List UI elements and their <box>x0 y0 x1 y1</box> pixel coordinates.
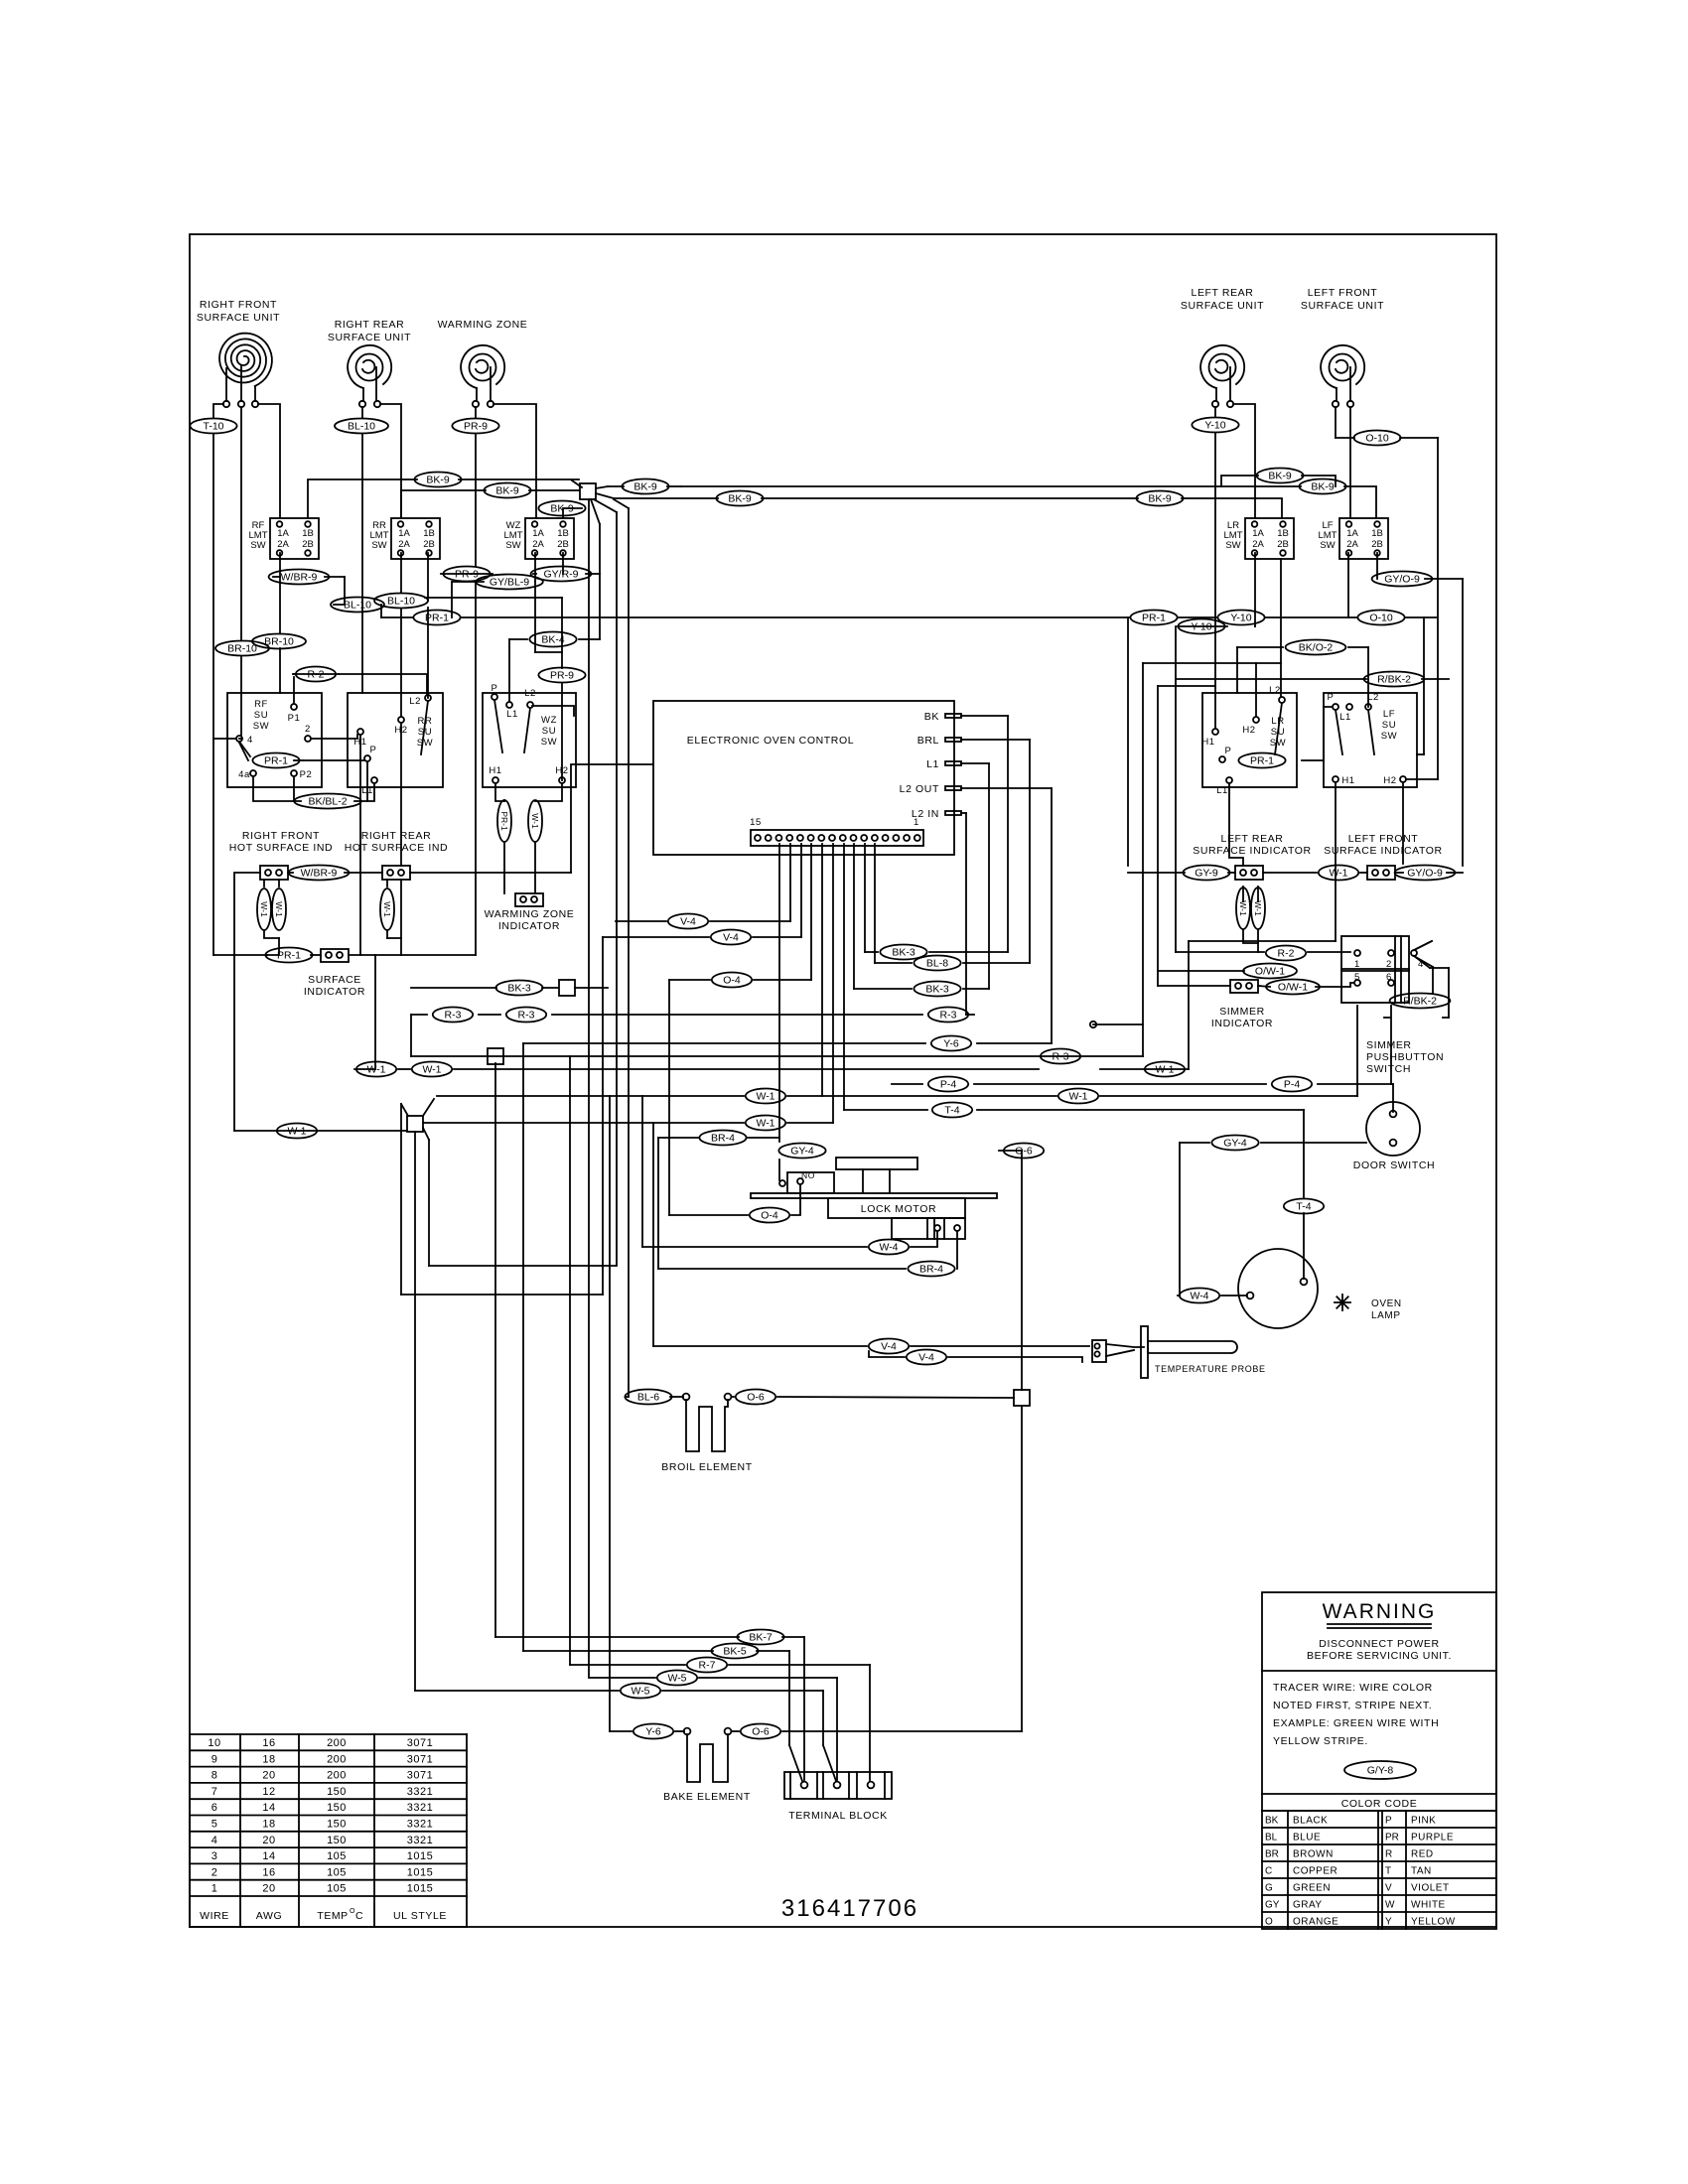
svg-text:1015: 1015 <box>407 1866 433 1878</box>
svg-text:P: P <box>492 683 498 694</box>
svg-text:L2: L2 <box>409 696 421 707</box>
svg-text:BLACK: BLACK <box>1293 1816 1328 1827</box>
svg-text:O: O <box>1265 1917 1273 1928</box>
svg-text:T-4: T-4 <box>944 1105 959 1117</box>
svg-text:LEFT FRONT: LEFT FRONT <box>1308 287 1378 299</box>
svg-text:COLOR CODE: COLOR CODE <box>1341 1798 1418 1810</box>
svg-text:BAKE ELEMENT: BAKE ELEMENT <box>663 1791 751 1803</box>
svg-text:P: P <box>1225 746 1232 756</box>
svg-text:SU: SU <box>1382 720 1396 731</box>
svg-text:W-1: W-1 <box>259 901 269 917</box>
svg-text:V-4: V-4 <box>680 916 696 928</box>
svg-text:W-4: W-4 <box>879 1242 898 1254</box>
svg-text:SW: SW <box>417 738 434 749</box>
svg-text:LOCK MOTOR: LOCK MOTOR <box>861 1203 936 1215</box>
svg-text:GY-4: GY-4 <box>1223 1138 1247 1150</box>
svg-text:PR-1: PR-1 <box>1250 755 1274 767</box>
svg-text:1A: 1A <box>1252 528 1264 539</box>
svg-text:150: 150 <box>327 1819 347 1831</box>
svg-text:BL: BL <box>1265 1833 1278 1843</box>
svg-text:200: 200 <box>327 1753 347 1765</box>
svg-text:LAMP: LAMP <box>1371 1310 1401 1321</box>
svg-text:18: 18 <box>262 1819 275 1831</box>
svg-text:1B: 1B <box>557 528 569 539</box>
svg-text:GY-9: GY-9 <box>1195 868 1218 880</box>
svg-text:1015: 1015 <box>407 1850 433 1862</box>
svg-text:T-4: T-4 <box>1296 1201 1311 1213</box>
svg-text:1B: 1B <box>423 528 435 539</box>
svg-text:R: R <box>1385 1849 1392 1860</box>
svg-text:PINK: PINK <box>1411 1816 1436 1827</box>
svg-text:INDICATOR: INDICATOR <box>498 920 560 932</box>
svg-text:W-1: W-1 <box>1329 868 1347 880</box>
svg-text:YELLOW STRIPE.: YELLOW STRIPE. <box>1273 1735 1368 1747</box>
svg-text:3321: 3321 <box>407 1802 433 1814</box>
svg-text:150: 150 <box>327 1835 347 1846</box>
svg-text:WZ: WZ <box>541 715 557 726</box>
svg-text:1A: 1A <box>1346 528 1358 539</box>
svg-text:W-1: W-1 <box>422 1064 441 1076</box>
svg-text:W-1: W-1 <box>287 1126 306 1138</box>
svg-text:BK-9: BK-9 <box>1268 471 1292 482</box>
svg-text:C: C <box>1265 1866 1272 1877</box>
svg-text:RIGHT FRONT: RIGHT FRONT <box>200 299 277 311</box>
svg-text:18: 18 <box>262 1753 275 1765</box>
svg-text:20: 20 <box>262 1770 275 1782</box>
svg-text:P: P <box>1385 1816 1392 1827</box>
svg-text:BK-5: BK-5 <box>723 1646 747 1658</box>
svg-text:150: 150 <box>327 1802 347 1814</box>
svg-text:TERMINAL BLOCK: TERMINAL BLOCK <box>788 1810 888 1822</box>
svg-text:BROWN: BROWN <box>1293 1849 1334 1860</box>
svg-text:W: W <box>1385 1900 1395 1911</box>
svg-text:W-4: W-4 <box>1190 1291 1208 1302</box>
svg-text:R/BK-2: R/BK-2 <box>1403 996 1437 1008</box>
svg-text:PR-1: PR-1 <box>1142 613 1166 624</box>
svg-text:O-6: O-6 <box>747 1392 765 1404</box>
svg-text:V-4: V-4 <box>881 1341 897 1353</box>
svg-text:OVEN: OVEN <box>1371 1298 1402 1309</box>
svg-text:BL-6: BL-6 <box>637 1392 659 1404</box>
svg-text:1: 1 <box>1354 959 1360 970</box>
svg-text:W-1: W-1 <box>1068 1091 1087 1103</box>
svg-text:RED: RED <box>1411 1849 1434 1860</box>
svg-text:GRAY: GRAY <box>1293 1900 1323 1911</box>
svg-text:G/Y-8: G/Y-8 <box>1367 1765 1394 1777</box>
svg-text:1: 1 <box>211 1883 218 1895</box>
svg-text:P-4: P-4 <box>940 1079 957 1091</box>
svg-text:200: 200 <box>327 1770 347 1782</box>
svg-text:R/BK-2: R/BK-2 <box>1377 674 1411 686</box>
svg-text:R-3: R-3 <box>445 1010 462 1022</box>
svg-text:BK-3: BK-3 <box>507 983 531 995</box>
svg-text:5: 5 <box>1354 972 1360 983</box>
svg-text:BRL: BRL <box>917 735 939 747</box>
svg-text:8: 8 <box>211 1770 218 1782</box>
svg-text:SW: SW <box>371 540 386 551</box>
svg-text:GY/O-9: GY/O-9 <box>1407 868 1443 880</box>
svg-text:105: 105 <box>327 1850 347 1862</box>
svg-text:L1: L1 <box>926 758 939 770</box>
svg-text:BK-3: BK-3 <box>925 984 949 996</box>
svg-text:W-5: W-5 <box>667 1673 686 1685</box>
svg-text:12: 12 <box>262 1786 275 1798</box>
svg-text:SW: SW <box>250 540 265 551</box>
svg-text:6: 6 <box>211 1802 218 1814</box>
svg-text:16: 16 <box>262 1737 275 1749</box>
svg-text:BK: BK <box>924 711 939 723</box>
svg-text:W-1: W-1 <box>530 813 540 829</box>
svg-text:SW: SW <box>1270 738 1287 749</box>
svg-text:O-4: O-4 <box>761 1210 778 1222</box>
svg-text:Y-10: Y-10 <box>1191 621 1211 633</box>
svg-text:H2: H2 <box>1383 775 1396 786</box>
svg-text:W-1: W-1 <box>1238 900 1248 916</box>
svg-text:INDICATOR: INDICATOR <box>1211 1018 1273 1029</box>
svg-text:O-10: O-10 <box>1369 613 1393 624</box>
svg-text:W-1: W-1 <box>366 1064 385 1076</box>
svg-text:BK-9: BK-9 <box>495 485 519 497</box>
svg-text:LEFT FRONT: LEFT FRONT <box>1348 833 1419 845</box>
svg-text:BK-9: BK-9 <box>426 475 450 486</box>
svg-text:7: 7 <box>211 1786 218 1798</box>
svg-text:RIGHT REAR: RIGHT REAR <box>361 830 432 842</box>
svg-text:PR: PR <box>1385 1833 1399 1843</box>
svg-text:G: G <box>1265 1883 1273 1894</box>
svg-text:20: 20 <box>262 1883 275 1895</box>
svg-text:R-2: R-2 <box>1278 948 1295 960</box>
svg-text:ELECTRONIC OVEN CONTROL: ELECTRONIC OVEN CONTROL <box>687 735 854 747</box>
svg-text:HOT SURFACE IND: HOT SURFACE IND <box>229 842 333 854</box>
svg-text:BK-9: BK-9 <box>550 503 574 515</box>
svg-text:1A: 1A <box>532 528 544 539</box>
svg-text:BK: BK <box>1265 1816 1279 1827</box>
svg-text:SURFACE UNIT: SURFACE UNIT <box>197 312 280 324</box>
svg-text:V-4: V-4 <box>723 932 739 944</box>
svg-text:GY/BL-9: GY/BL-9 <box>490 577 529 589</box>
svg-text:2A: 2A <box>1346 539 1358 550</box>
svg-text:PR-1: PR-1 <box>264 755 288 767</box>
svg-text:L2 OUT: L2 OUT <box>900 783 939 795</box>
svg-text:H2: H2 <box>1242 725 1255 736</box>
svg-text:BEFORE SERVICING UNIT.: BEFORE SERVICING UNIT. <box>1307 1650 1452 1662</box>
svg-text:LF: LF <box>1383 709 1395 720</box>
svg-text:H1: H1 <box>1341 775 1354 786</box>
svg-text:O/W-1: O/W-1 <box>1255 966 1285 978</box>
svg-text:BROIL ELEMENT: BROIL ELEMENT <box>661 1461 752 1473</box>
svg-text:2B: 2B <box>302 539 314 550</box>
svg-text:3071: 3071 <box>407 1737 433 1749</box>
svg-text:BK-9: BK-9 <box>1148 493 1172 505</box>
svg-text:1015: 1015 <box>407 1883 433 1895</box>
svg-text:P: P <box>1328 692 1335 703</box>
svg-text:BR-10: BR-10 <box>227 643 257 655</box>
svg-text:3321: 3321 <box>407 1786 433 1798</box>
svg-text:Y: Y <box>1385 1917 1392 1928</box>
svg-text:TRACER WIRE: WIRE COLOR: TRACER WIRE: WIRE COLOR <box>1273 1682 1433 1694</box>
svg-text:9: 9 <box>211 1753 218 1765</box>
svg-text:PR-1: PR-1 <box>499 811 509 831</box>
svg-text:NOTED FIRST, STRIPE NEXT.: NOTED FIRST, STRIPE NEXT. <box>1273 1700 1432 1711</box>
svg-text:SURFACE: SURFACE <box>308 974 361 986</box>
svg-text:PURPLE: PURPLE <box>1411 1833 1454 1843</box>
svg-text:LEFT REAR: LEFT REAR <box>1192 287 1254 299</box>
svg-text:W-1: W-1 <box>1155 1064 1174 1076</box>
svg-text:TEMP: TEMP <box>317 1910 348 1922</box>
svg-text:2B: 2B <box>1277 539 1289 550</box>
svg-text:RF: RF <box>254 699 268 710</box>
svg-text:105: 105 <box>327 1883 347 1895</box>
svg-text:SURFACE UNIT: SURFACE UNIT <box>328 332 411 343</box>
svg-text:4: 4 <box>247 735 253 746</box>
svg-text:PR-9: PR-9 <box>455 569 479 581</box>
svg-text:SW: SW <box>1320 540 1335 551</box>
svg-text:L2: L2 <box>524 688 536 699</box>
svg-text:6: 6 <box>1386 972 1392 983</box>
svg-text:1B: 1B <box>302 528 314 539</box>
svg-text:SW: SW <box>253 721 270 732</box>
svg-text:16: 16 <box>262 1866 275 1878</box>
svg-text:150: 150 <box>327 1786 347 1798</box>
svg-text:SW: SW <box>505 540 520 551</box>
svg-text:BK-9: BK-9 <box>633 481 657 493</box>
svg-text:TAN: TAN <box>1411 1866 1432 1877</box>
svg-text:4a: 4a <box>238 769 250 780</box>
svg-text:BL-10: BL-10 <box>344 600 371 612</box>
svg-text:2B: 2B <box>557 539 569 550</box>
svg-text:BK/O-2: BK/O-2 <box>1299 642 1334 654</box>
svg-text:R-3: R-3 <box>940 1010 957 1022</box>
svg-text:P: P <box>370 745 377 755</box>
svg-text:R-7: R-7 <box>699 1660 716 1672</box>
svg-text:10: 10 <box>208 1737 220 1749</box>
svg-text:R-2: R-2 <box>308 669 325 681</box>
svg-text:W-1: W-1 <box>756 1091 774 1103</box>
svg-text:PR-1: PR-1 <box>277 950 301 962</box>
svg-text:1B: 1B <box>1371 528 1383 539</box>
svg-text:2A: 2A <box>1252 539 1264 550</box>
svg-text:W/BR-9: W/BR-9 <box>301 868 338 880</box>
svg-text:PR-1: PR-1 <box>425 613 449 624</box>
svg-text:C: C <box>355 1910 363 1922</box>
svg-text:Y-6: Y-6 <box>943 1038 959 1050</box>
svg-text:SW: SW <box>541 737 558 748</box>
svg-text:3071: 3071 <box>407 1753 433 1765</box>
svg-text:Y-6: Y-6 <box>645 1726 661 1738</box>
svg-text:PUSHBUTTON: PUSHBUTTON <box>1366 1051 1444 1063</box>
svg-text:1A: 1A <box>398 528 410 539</box>
svg-text:DISCONNECT POWER: DISCONNECT POWER <box>1319 1638 1439 1650</box>
svg-text:LR: LR <box>1271 716 1284 727</box>
svg-text:TEMPERATURE PROBE: TEMPERATURE PROBE <box>1155 1364 1266 1374</box>
svg-text:AWG: AWG <box>256 1910 283 1922</box>
svg-text:R-3: R-3 <box>518 1010 535 1022</box>
svg-text:DOOR SWITCH: DOOR SWITCH <box>1353 1160 1435 1171</box>
svg-text:WARMING ZONE: WARMING ZONE <box>438 319 528 331</box>
svg-text:P1: P1 <box>288 713 301 724</box>
svg-text:WARMING ZONE: WARMING ZONE <box>485 908 575 920</box>
svg-text:SURFACE UNIT: SURFACE UNIT <box>1301 300 1384 312</box>
svg-text:LEFT REAR: LEFT REAR <box>1221 833 1284 845</box>
svg-text:2B: 2B <box>1371 539 1383 550</box>
svg-text:V-4: V-4 <box>918 1352 934 1364</box>
svg-text:200: 200 <box>327 1737 347 1749</box>
svg-text:BK-9: BK-9 <box>728 493 752 505</box>
svg-text:2A: 2A <box>398 539 410 550</box>
svg-text:PR-9: PR-9 <box>464 421 488 433</box>
svg-text:ORANGE: ORANGE <box>1293 1917 1338 1928</box>
svg-text:W-1: W-1 <box>1253 900 1263 916</box>
svg-text:SW: SW <box>1381 731 1398 742</box>
svg-text:W-5: W-5 <box>631 1686 649 1698</box>
svg-text:SURFACE UNIT: SURFACE UNIT <box>1181 300 1264 312</box>
svg-text:316417706: 316417706 <box>781 1895 918 1922</box>
svg-text:SIMMER: SIMMER <box>1219 1006 1265 1018</box>
svg-text:L1: L1 <box>506 709 518 720</box>
svg-text:GY/R-9: GY/R-9 <box>543 569 578 581</box>
svg-text:2A: 2A <box>532 539 544 550</box>
svg-text:Y-10: Y-10 <box>1230 613 1251 624</box>
svg-text:RIGHT REAR: RIGHT REAR <box>335 319 405 331</box>
svg-text:WHITE: WHITE <box>1411 1900 1446 1911</box>
svg-text:YELLOW: YELLOW <box>1411 1917 1456 1928</box>
svg-text:5: 5 <box>211 1819 218 1831</box>
svg-text:SU: SU <box>254 710 268 721</box>
svg-text:2: 2 <box>1386 959 1392 970</box>
svg-text:H1: H1 <box>489 765 501 776</box>
svg-text:3321: 3321 <box>407 1835 433 1846</box>
svg-text:14: 14 <box>262 1850 275 1862</box>
svg-text:15: 15 <box>750 817 762 828</box>
svg-text:1: 1 <box>914 817 919 828</box>
svg-text:20: 20 <box>262 1835 275 1846</box>
svg-text:O-10: O-10 <box>1365 433 1389 445</box>
svg-text:V: V <box>1385 1883 1392 1894</box>
svg-text:P-4: P-4 <box>1284 1079 1301 1091</box>
svg-text:COPPER: COPPER <box>1293 1866 1337 1877</box>
svg-text:O-4: O-4 <box>723 975 741 987</box>
svg-text:BL-10: BL-10 <box>348 421 375 433</box>
svg-text:BK-4: BK-4 <box>541 634 565 646</box>
svg-text:4: 4 <box>211 1835 218 1846</box>
svg-text:O/W-1: O/W-1 <box>1278 982 1308 994</box>
svg-text:3321: 3321 <box>407 1819 433 1831</box>
svg-text:BL-8: BL-8 <box>926 958 948 970</box>
svg-text:O-6: O-6 <box>752 1726 770 1738</box>
svg-text:BK-3: BK-3 <box>892 947 915 959</box>
svg-text:INDICATOR: INDICATOR <box>304 986 365 998</box>
svg-text:3: 3 <box>211 1850 218 1862</box>
svg-text:T-10: T-10 <box>203 421 223 433</box>
svg-text:WIRE: WIRE <box>200 1910 229 1922</box>
svg-text:P2: P2 <box>300 769 313 780</box>
svg-text:RIGHT FRONT: RIGHT FRONT <box>242 830 320 842</box>
svg-text:2: 2 <box>305 724 311 735</box>
svg-text:GY: GY <box>1265 1900 1280 1911</box>
svg-text:WARNING: WARNING <box>1323 1600 1437 1623</box>
svg-text:BK-9: BK-9 <box>1311 481 1335 493</box>
svg-text:W-1: W-1 <box>756 1118 774 1130</box>
svg-text:SWITCH: SWITCH <box>1366 1063 1411 1075</box>
svg-text:BLUE: BLUE <box>1293 1833 1321 1843</box>
svg-text:3071: 3071 <box>407 1770 433 1782</box>
svg-text:EXAMPLE: GREEN WIRE WIT: EXAMPLE: GREEN WIRE WITH <box>1273 1717 1439 1729</box>
svg-text:T: T <box>1385 1866 1391 1877</box>
svg-text:W-1: W-1 <box>382 901 392 917</box>
svg-text:PR-9: PR-9 <box>550 670 574 682</box>
svg-text:UL STYLE: UL STYLE <box>393 1910 447 1922</box>
svg-text:BK-7: BK-7 <box>749 1632 773 1644</box>
svg-text:BR: BR <box>1265 1849 1279 1860</box>
svg-text:BR-4: BR-4 <box>919 1264 943 1276</box>
svg-text:L1: L1 <box>1216 785 1228 796</box>
svg-text:SIMMER: SIMMER <box>1366 1039 1412 1051</box>
svg-text:SU: SU <box>542 726 556 737</box>
svg-text:GREEN: GREEN <box>1293 1883 1331 1894</box>
svg-text:SURFACE INDICATOR: SURFACE INDICATOR <box>1324 845 1443 857</box>
svg-text:1B: 1B <box>1277 528 1289 539</box>
svg-text:1A: 1A <box>277 528 289 539</box>
svg-text:VIOLET: VIOLET <box>1411 1883 1450 1894</box>
svg-text:GY-4: GY-4 <box>790 1146 814 1158</box>
svg-text:H1: H1 <box>1201 737 1214 748</box>
svg-text:SW: SW <box>1225 540 1240 551</box>
svg-text:BL-10: BL-10 <box>387 596 415 608</box>
svg-text:L1: L1 <box>1339 712 1351 723</box>
svg-text:W/BR-9: W/BR-9 <box>281 572 318 584</box>
svg-text:L2: L2 <box>1269 685 1281 696</box>
svg-text:2A: 2A <box>277 539 289 550</box>
svg-text:GY/O-9: GY/O-9 <box>1384 574 1420 586</box>
svg-text:BR-4: BR-4 <box>711 1133 735 1145</box>
svg-text:BK/BL-2: BK/BL-2 <box>308 796 347 808</box>
svg-text:Y-10: Y-10 <box>1204 420 1225 432</box>
svg-text:14: 14 <box>262 1802 275 1814</box>
svg-text:NO: NO <box>801 1170 815 1180</box>
svg-text:2: 2 <box>211 1866 218 1878</box>
svg-text:105: 105 <box>327 1866 347 1878</box>
svg-text:O-6: O-6 <box>1015 1146 1033 1158</box>
svg-text:W-1: W-1 <box>274 901 284 917</box>
svg-text:2B: 2B <box>423 539 435 550</box>
svg-text:R-3: R-3 <box>1053 1051 1069 1063</box>
svg-text:SURFACE INDICATOR: SURFACE INDICATOR <box>1193 845 1312 857</box>
